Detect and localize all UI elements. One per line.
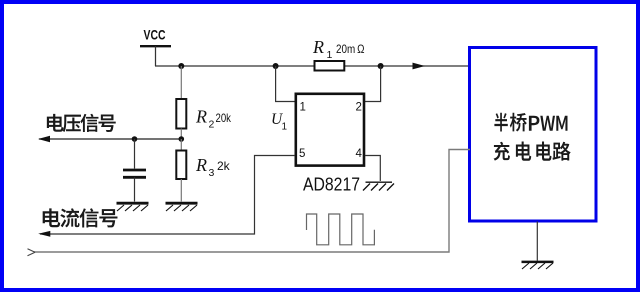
wire node to R3 — [180, 139, 182, 151]
net label 电压信号 (voltage signal) — [47, 114, 116, 132]
svg-text:2: 2 — [356, 102, 362, 114]
power symbol VCC — [140, 27, 171, 47]
svg-text:20k: 20k — [216, 111, 232, 125]
svg-text:VCC: VCC — [144, 27, 166, 43]
wire pin1 from rail — [276, 66, 295, 102]
block label line1 半桥PWM — [494, 113, 567, 132]
node junction R3/voltage line — [179, 136, 185, 142]
label R1 — [312, 37, 333, 61]
half-bridge PWM charging block — [470, 48, 597, 222]
ground at pin4 — [363, 182, 394, 190]
label R2 — [195, 107, 215, 131]
wire node to capacitor — [134, 139, 136, 169]
svg-text:2: 2 — [209, 119, 215, 131]
op-amp U1 AD8217 body — [296, 94, 364, 166]
wire voltage signal line with arrow — [38, 136, 181, 143]
resistor R2 — [176, 99, 186, 129]
svg-text:R: R — [195, 155, 207, 175]
ground under R3 — [166, 203, 198, 211]
svg-text:3: 3 — [209, 167, 215, 179]
wire pin5 / current signal line with arrow — [38, 156, 295, 237]
node junction at R1 right / pin2 — [378, 63, 384, 69]
svg-text:20m Ω: 20m Ω — [336, 42, 365, 56]
node junction at VCC/R2 — [178, 63, 184, 69]
wire main rail left of R1 — [155, 65, 314, 67]
svg-text:R: R — [195, 107, 207, 127]
svg-text:AD8217: AD8217 — [303, 175, 360, 195]
wire main rail right of R1 — [345, 65, 469, 67]
net label 电流信号 (current signal) — [43, 208, 118, 227]
svg-text:2k: 2k — [217, 159, 231, 173]
wire block to ground — [536, 222, 538, 261]
label R3 — [195, 155, 215, 179]
wire PWM feedback bottom line — [34, 150, 470, 253]
svg-text:1: 1 — [327, 49, 333, 61]
input chevron on feedback line — [28, 249, 36, 256]
arrow into charging block — [413, 63, 426, 70]
wire capacitor to ground — [134, 177, 136, 201]
svg-text:4: 4 — [356, 148, 363, 160]
ground under capacitor — [117, 203, 149, 211]
PWM waveform symbol — [307, 214, 375, 245]
svg-text:1: 1 — [282, 122, 288, 133]
svg-text:1: 1 — [300, 102, 306, 114]
svg-text:5: 5 — [299, 148, 305, 160]
wire rail to R2 — [180, 66, 182, 99]
wire VCC stub — [155, 46, 157, 66]
capacitor C1 — [123, 170, 146, 177]
node junction at R1 left / pin1 — [273, 63, 279, 69]
wire pin2 from rail — [365, 66, 381, 102]
svg-text:R: R — [312, 37, 324, 57]
wire pin4 to ground — [365, 156, 380, 182]
block label line2 充电电路 — [494, 142, 571, 161]
label U1 — [271, 111, 288, 133]
resistor R3 — [176, 151, 186, 180]
wire R3 to ground — [180, 179, 182, 202]
ground under block — [522, 262, 554, 269]
resistor R1 — [315, 61, 345, 71]
wire R2 to node — [180, 129, 182, 140]
node junction cap/voltage line — [132, 136, 138, 142]
